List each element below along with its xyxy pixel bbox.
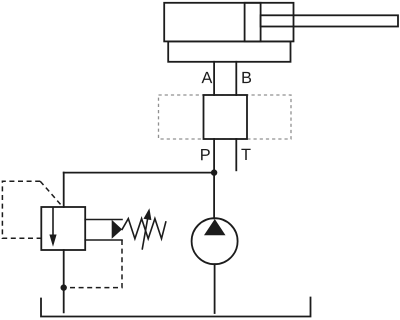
pump circle (192, 218, 238, 264)
node junction dot drain (61, 284, 67, 290)
pilot line dashed (pressure sensing) (2, 181, 41, 238)
cylinder barrel (164, 3, 293, 42)
label A (202, 72, 213, 83)
tank reservoir (41, 298, 311, 317)
relief valve spring channel top (85, 219, 122, 221)
wire port A line (213, 62, 215, 95)
piston (245, 3, 261, 42)
wire pump suction line (214, 264, 216, 313)
relief valve body (41, 207, 85, 250)
relief valve spring (122, 219, 166, 239)
label B (242, 72, 251, 83)
wire branch to relief valve (64, 172, 214, 174)
valve body (solid position square) (204, 95, 248, 139)
relief valve spring channel bottom (85, 239, 122, 241)
relief valve seat triangle (112, 220, 122, 239)
wire relief valve inlet (63, 173, 65, 207)
relief valve adjustment arrow (142, 219, 147, 249)
wire P line (valve to pump) (213, 139, 215, 218)
drain line dashed (67, 240, 122, 288)
cylinder head flange (168, 41, 290, 61)
label T (241, 149, 250, 160)
valve envelope (dashed positions box) (159, 95, 292, 139)
wire relief valve outlet to tank (63, 250, 65, 312)
pump flow triangle (204, 219, 226, 235)
label P (201, 149, 210, 160)
wire T line (235, 139, 237, 170)
node junction dot P (211, 169, 217, 175)
relief valve flow arrow (52, 208, 54, 236)
pilot line dashed diagonal (40, 181, 62, 206)
wire port B line (235, 62, 237, 95)
piston rod (261, 15, 398, 26)
